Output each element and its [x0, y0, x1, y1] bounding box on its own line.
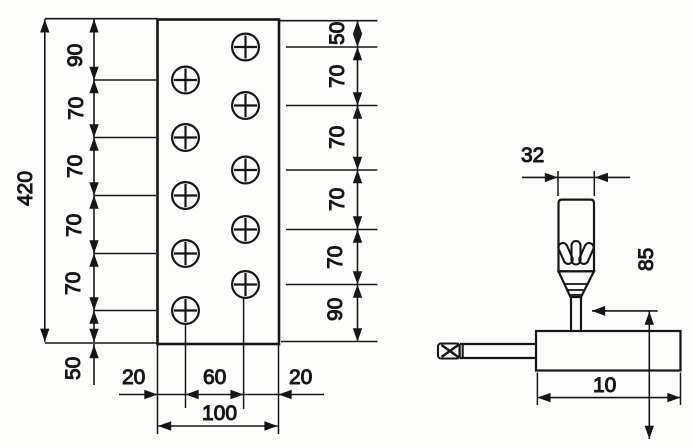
svg-text:70: 70 — [326, 126, 349, 149]
svg-text:10: 10 — [593, 374, 616, 397]
hole R1 — [232, 34, 259, 61]
stem — [571, 297, 581, 331]
hole R5 — [232, 271, 259, 298]
dimension 85 vertical line — [648, 311, 650, 439]
hole L5 — [172, 297, 199, 324]
hole R3 — [232, 157, 259, 184]
svg-text:50: 50 — [326, 22, 349, 45]
svg-text:100: 100 — [202, 402, 237, 425]
left chain level line row5 — [94, 310, 156, 312]
svg-text:50: 50 — [62, 357, 85, 380]
taper ring 1 — [565, 283, 589, 285]
left chain level line row3 — [94, 195, 156, 197]
svg-text:32: 32 — [521, 144, 544, 167]
svg-text:20: 20 — [122, 366, 145, 389]
spout bar bottom edge — [460, 357, 536, 359]
hole L2 — [172, 124, 199, 151]
top extension line left — [45, 18, 158, 20]
taper ring 2 — [567, 289, 586, 291]
hole R2 — [232, 92, 259, 119]
svg-text:90: 90 — [324, 298, 347, 321]
taper ring 3 — [569, 294, 583, 296]
svg-text:70: 70 — [324, 246, 347, 269]
hole L1 — [172, 67, 199, 94]
left chain level line row4 — [94, 253, 156, 255]
body outline — [536, 331, 681, 371]
handle outline — [559, 200, 595, 272]
svg-text:70: 70 — [63, 214, 86, 237]
hole column leader right — [243, 298, 245, 409]
right chain level line row3 — [286, 169, 377, 171]
svg-text:70: 70 — [62, 272, 85, 295]
10 extension line right — [680, 373, 682, 406]
left chain arrowheads — [89, 19, 98, 342]
spout bar top edge — [460, 343, 536, 345]
50 leader stub below plate — [93, 344, 95, 385]
left chain dimension line — [93, 19, 95, 342]
svg-text:70: 70 — [65, 97, 88, 120]
32 extension lines — [558, 171, 594, 196]
svg-text:90: 90 — [64, 44, 87, 67]
right chain arrowheads — [353, 21, 362, 342]
bottom extension line left — [45, 342, 158, 344]
pointer arrow to stem — [592, 310, 658, 312]
svg-text:85: 85 — [635, 248, 658, 271]
right chain top extension — [279, 20, 377, 22]
plate right edge extension below — [278, 345, 280, 434]
right chain level line row5 — [286, 284, 377, 286]
10 extension line left — [536, 373, 538, 406]
svg-text:20: 20 — [289, 366, 312, 389]
right chain dimension line — [357, 21, 359, 342]
right chain level line row4 — [286, 229, 377, 231]
left chain level line row2 — [94, 137, 156, 139]
svg-text:70: 70 — [64, 155, 87, 178]
spout tip — [438, 344, 463, 359]
svg-text:420: 420 — [14, 171, 37, 206]
svg-text:70: 70 — [326, 65, 349, 88]
right chain level line row2 — [286, 105, 377, 107]
hole L3 — [172, 182, 199, 209]
svg-text:60: 60 — [203, 366, 226, 389]
hole L4 — [172, 240, 199, 267]
svg-text:70: 70 — [326, 188, 349, 211]
bottom dimension line 20/60/20 — [119, 394, 324, 396]
grip pattern — [557, 241, 595, 265]
left chain level line row1 — [94, 79, 156, 81]
dimension 10 line — [537, 397, 680, 399]
hole R4 — [232, 216, 259, 243]
plate left edge extension below — [157, 345, 159, 434]
hole column leader left — [185, 324, 187, 408]
dimension 32 line — [522, 176, 630, 178]
taper below handle — [559, 271, 595, 297]
right chain level line row1 — [286, 46, 377, 48]
dimension 100 line — [158, 425, 278, 427]
right chain bottom extension — [281, 341, 377, 343]
dimension 420 line — [44, 19, 46, 342]
plate outline — [158, 20, 280, 345]
